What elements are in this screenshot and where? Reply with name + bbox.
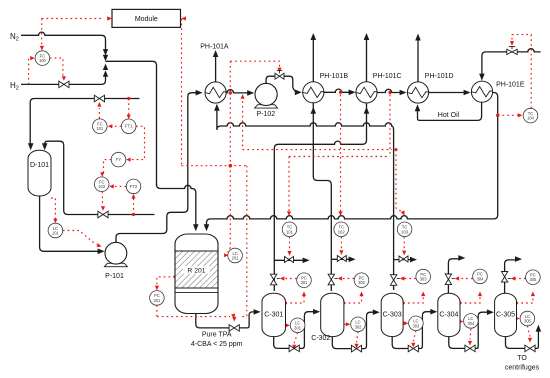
- svg-text:PH-101A: PH-101A: [200, 43, 229, 50]
- svg-text:305: 305: [529, 277, 537, 282]
- svg-text:103: 103: [401, 229, 409, 234]
- svg-text:P-101: P-101: [105, 273, 124, 280]
- svg-text:102: 102: [98, 184, 106, 189]
- svg-text:Hot Oil: Hot Oil: [438, 112, 460, 119]
- svg-text:FT2: FT2: [130, 184, 138, 189]
- svg-text:C-305: C-305: [496, 311, 515, 318]
- svg-text:C-304: C-304: [439, 311, 458, 318]
- svg-text:301: 301: [301, 280, 309, 285]
- svg-text:101: 101: [286, 229, 294, 234]
- svg-text:301: 301: [294, 325, 302, 330]
- svg-text:centrifuges: centrifuges: [505, 365, 540, 372]
- svg-text:P-102: P-102: [256, 111, 275, 118]
- svg-text:4-CBA < 25 ppm: 4-CBA < 25 ppm: [191, 341, 243, 348]
- svg-text:C-301: C-301: [264, 311, 283, 318]
- svg-text:303: 303: [412, 323, 420, 328]
- svg-text:R 201: R 201: [187, 268, 205, 275]
- svg-text:102: 102: [338, 229, 346, 234]
- svg-text:302: 302: [355, 324, 363, 329]
- svg-text:C-303: C-303: [383, 311, 402, 318]
- svg-text:101: 101: [96, 126, 104, 131]
- svg-text:Pure TPA: Pure TPA: [202, 332, 232, 339]
- svg-text:100: 100: [39, 58, 47, 63]
- svg-text:104: 104: [527, 116, 535, 121]
- svg-text:PH-101D: PH-101D: [425, 73, 454, 80]
- svg-text:Module: Module: [135, 16, 158, 23]
- svg-text:C-302: C-302: [311, 335, 330, 342]
- svg-text:101: 101: [52, 231, 60, 236]
- svg-text:PH-101C: PH-101C: [373, 73, 402, 80]
- svg-text:303: 303: [420, 277, 428, 282]
- svg-text:201: 201: [232, 256, 240, 261]
- svg-text:FY: FY: [116, 157, 122, 162]
- svg-text:TO: TO: [517, 355, 527, 362]
- svg-text:D-101: D-101: [30, 162, 49, 169]
- svg-text:PH-101B: PH-101B: [320, 73, 349, 80]
- svg-text:PH-101E: PH-101E: [496, 81, 525, 88]
- svg-text:304: 304: [477, 276, 485, 281]
- svg-text:302: 302: [358, 280, 366, 285]
- svg-text:305: 305: [524, 319, 532, 324]
- svg-text:FT1: FT1: [125, 124, 133, 129]
- svg-text:304: 304: [467, 321, 475, 326]
- svg-text:201: 201: [153, 298, 161, 303]
